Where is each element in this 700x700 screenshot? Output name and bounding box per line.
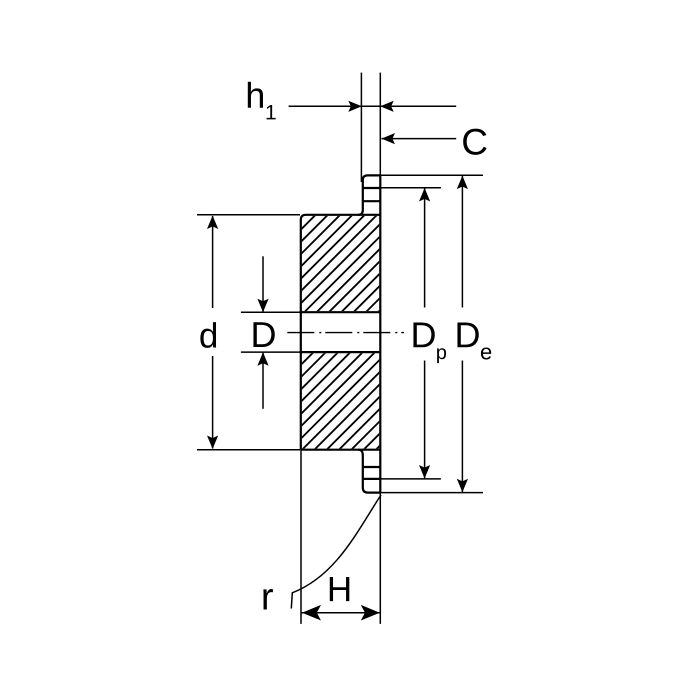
dimension De line upper segment xyxy=(461,176,463,308)
dimension h1 line xyxy=(289,105,457,107)
right face extension line (bottom) xyxy=(379,493,381,624)
label r xyxy=(263,589,273,609)
top tooth strip outline xyxy=(358,175,381,214)
label h1 - subscript 1 xyxy=(267,105,276,119)
dimension d line upper segment xyxy=(212,216,214,308)
dimension D arrowhead up xyxy=(257,352,268,366)
hub section hatching xyxy=(55,214,612,451)
dimension Dp arrowhead up xyxy=(419,188,430,202)
label C xyxy=(463,129,486,155)
dimension H arrowhead right xyxy=(361,605,380,621)
label Dp - subscript p xyxy=(437,348,446,363)
dimension Dp line lower segment xyxy=(424,361,426,479)
Dp extension line top xyxy=(381,187,441,189)
bore extension line top xyxy=(241,311,300,313)
hub left face extension line (bottom, H dimension) xyxy=(300,450,302,624)
centerline dash-dot xyxy=(287,332,404,334)
bore top edge xyxy=(300,311,381,313)
dimension d line lower segment xyxy=(212,356,214,449)
dimension d arrowhead up xyxy=(207,216,218,230)
label Dp - D xyxy=(413,323,434,348)
label d xyxy=(200,322,216,348)
bottom tooth strip outline xyxy=(358,450,381,493)
sprocket right face outline xyxy=(379,175,381,492)
dimension Dp line upper segment xyxy=(424,188,426,307)
dimension De line lower segment xyxy=(461,361,463,493)
dimension D line upper segment xyxy=(262,256,264,311)
hub top edge xyxy=(301,215,381,450)
dimension H line xyxy=(301,612,380,614)
bottom tooth band line 2 (pitch) xyxy=(363,478,381,480)
dimension h1 arrowhead left xyxy=(348,101,362,112)
dimension h1 arrowhead right xyxy=(380,101,394,112)
top tooth band line 2 (root) xyxy=(363,200,381,202)
d extension line bottom xyxy=(197,449,300,451)
radius r leader curve xyxy=(291,495,381,609)
bore extension line bottom xyxy=(241,351,300,353)
bottom tooth band line 1 (root) xyxy=(363,466,381,468)
d extension line top xyxy=(197,214,300,216)
tooth face extension line right (top) xyxy=(379,73,381,176)
De extension line top xyxy=(381,174,483,176)
label h1 - h xyxy=(248,82,263,108)
label D (bore) xyxy=(253,322,274,347)
dimension C line xyxy=(382,138,457,140)
dimension De arrowhead up xyxy=(457,176,468,190)
dimension D line lower segment xyxy=(262,353,264,409)
top tooth band line 1 (pitch) xyxy=(363,187,381,189)
label H xyxy=(330,577,350,601)
tooth face extension line left (top) xyxy=(360,73,362,182)
dimension d arrowhead down xyxy=(207,436,218,450)
dimension De arrowhead down xyxy=(457,479,468,493)
label De - D xyxy=(457,323,478,348)
label De - subscript e xyxy=(481,347,491,359)
dimension C arrowhead xyxy=(382,133,396,144)
bore bottom edge xyxy=(300,351,381,353)
Dp extension line bottom xyxy=(381,478,441,480)
dimension H arrowhead left xyxy=(302,605,321,621)
hub bottom edge xyxy=(301,449,381,451)
De extension line bottom xyxy=(381,492,483,494)
dimension D arrowhead down xyxy=(257,299,268,313)
dimension Dp arrowhead down xyxy=(419,465,430,479)
